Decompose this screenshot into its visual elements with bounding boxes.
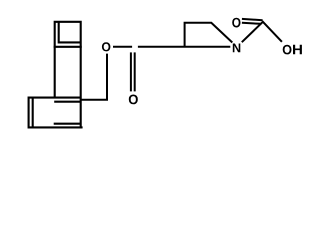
atom label OH [283,45,292,55]
bonds N to carboxyl C and C to OH [242,22,282,42]
carboxyl C=O double bond [242,19,263,20]
atom label O carbonyl [129,94,138,104]
benzene B inner double-bond top [54,101,80,103]
benzene B bottom bond overhang [81,126,83,128]
benzene A bottom bond [54,46,82,48]
carbonyl C=O double bond [130,52,132,91]
atom label N [233,43,240,52]
fluorene ring system outline [29,22,81,128]
bond carbonyl C to ring C2 [138,46,230,48]
atom label OH: H glyph [293,45,302,54]
benzene A inner double-bond lines [59,22,81,43]
benzene B inner double-bond vertical [32,98,34,128]
atom label O ester [102,42,110,51]
bond ester O to carbonyl C [113,46,132,48]
benzene B inner double-bond bottom [54,123,82,125]
bond C9 to CH2 and CH2 to ester O [81,54,107,100]
atom label O carboxyl [232,18,240,28]
azetidine ring left, top and diagonal to N [185,23,233,47]
